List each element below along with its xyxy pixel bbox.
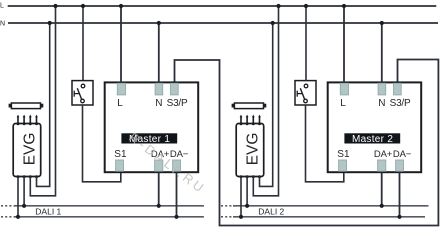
Master 1 terminal pad S1	[116, 160, 124, 171]
wire Master 2 DA- to bus line 2	[399, 172, 401, 217]
Master 1 terminal pad S3/P	[171, 83, 179, 95]
wire switch SW1 to Master 1 S1	[83, 105, 121, 182]
junction dot Master 1 DA- on bus line 2	[174, 215, 178, 219]
wire EVG2 DA terminal 1 to bus line 2	[240, 177, 242, 217]
junction dot EVG1-DA on bus line 1	[22, 204, 26, 208]
Master 2 name banner	[344, 133, 400, 143]
svg-text:L: L	[340, 98, 346, 109]
junction dot EVG2-DA on bus line 2	[239, 215, 243, 219]
svg-text:N: N	[0, 21, 5, 28]
EVG2 lamp terminals (top, with arrows)	[240, 115, 261, 124]
EVG1 lamp terminals (top, with arrows)	[17, 115, 38, 124]
wire EVG2 L terminal to mains L	[253, 6, 278, 196]
junction dot EVG2-N on N line	[271, 21, 275, 25]
wire DALI 2 bus DA line 1 (dotted lead)	[221, 205, 233, 207]
wire L line	[8, 5, 437, 7]
svg-text:DALI 2: DALI 2	[258, 206, 284, 216]
wire DALI 2 bus DA line 2 (dotted lead)	[221, 216, 233, 218]
wire DALI 1 bus DA line 1	[15, 205, 204, 207]
wire L line to switch S1	[82, 6, 84, 81]
junction dot EVG1-N on N line	[48, 21, 52, 25]
wire Master 1 DA+ to bus line 1	[158, 172, 160, 206]
svg-text:N: N	[378, 98, 385, 109]
op Master 2 box	[328, 82, 422, 172]
lamp LA2 (fluorescent tube)	[232, 103, 267, 109]
svg-text:DALI 1: DALI 1	[35, 206, 61, 216]
junction dot Master 1 N on N line	[157, 21, 161, 25]
wire mains N to Master 2 N	[381, 23, 383, 82]
wire EVG1 N terminal to mains N	[37, 23, 50, 186]
wire S3/P sync net (S3/P of Master 1 around to S3/P of Master 2)	[175, 60, 439, 226]
svg-text:L: L	[0, 2, 4, 9]
wire EVG1 L terminal to mains L	[30, 6, 55, 196]
EVG1 top terminal dots	[17, 122, 39, 125]
wire Master 1 DA- to bus line 2	[176, 172, 178, 217]
wire EVG1 DA terminal 2 to bus line 1	[23, 177, 25, 206]
svg-text:S1: S1	[337, 149, 350, 160]
EVG2 top terminal dots	[240, 122, 262, 125]
Master 1 terminal pad L	[117, 83, 125, 95]
wire EVG2 N terminal to mains N	[260, 23, 273, 186]
ballast EVG2 box	[236, 124, 264, 177]
junction dot EVG2-L on L line	[276, 4, 280, 8]
junction dot Master 1 DA+ on bus line 1	[157, 204, 161, 208]
junction dot Master 1 L on L line	[119, 4, 123, 8]
wire DALI 1 bus DA line 2	[15, 216, 204, 218]
Master 2 terminal pad L	[340, 83, 348, 95]
Master 1 terminal pad DA-	[173, 160, 181, 171]
EVG2 bottom terminal dots	[240, 175, 262, 178]
wire mains N to Master 1 N	[158, 23, 160, 82]
Master 2 terminal pad DA+	[378, 160, 386, 171]
Master 2 terminal pad S3/P	[394, 83, 402, 95]
wire N line	[8, 22, 438, 24]
junction dot EVG2-DA on bus line 1	[245, 204, 249, 208]
wire switch SW2 to Master 2 S1	[306, 105, 344, 182]
junction dot EVG1-DA on bus line 2	[16, 215, 20, 219]
svg-text:S3/P: S3/P	[390, 98, 411, 109]
op Master 1 box	[105, 82, 199, 172]
wire EVG2 DA terminal 2 to bus line 1	[246, 177, 248, 206]
Master 2 terminal pad DA-	[396, 160, 404, 171]
wire mains L to Master 2 L	[343, 6, 345, 82]
svg-text:EVG: EVG	[21, 133, 38, 166]
junction dot Master 2 DA- on bus line 2	[397, 215, 401, 219]
wire Master 2 DA+ to bus line 1	[381, 172, 383, 206]
wire EVG1 DA terminal 1 to bus line 2	[17, 177, 19, 217]
lamp LA1 (fluorescent tube)	[9, 103, 44, 109]
junction dot Master 2 L on L line	[342, 4, 346, 8]
svg-text:S3/P: S3/P	[167, 98, 188, 109]
svg-text:EVG: EVG	[244, 133, 261, 166]
switch SW2 (push-button)	[295, 81, 316, 105]
Master 1 name banner	[121, 133, 177, 143]
junction dot switch SW2 feed on L line	[304, 4, 308, 8]
wire L line to switch SW2	[305, 6, 307, 81]
Master 2 terminal pad S1	[339, 160, 347, 171]
svg-text:DA+: DA+	[374, 149, 393, 160]
ballast EVG1 box	[13, 124, 41, 177]
wire DALI 2 bus DA line 2	[233, 216, 425, 218]
wire DALI 1 bus DA line 1 (dotted lead)	[1, 205, 15, 207]
Master 1 terminal pad DA+	[155, 160, 163, 171]
junction dot switch feed on L line	[81, 4, 85, 8]
switch SW1 (push-button)	[72, 81, 93, 105]
svg-text:DA−: DA−	[393, 149, 412, 160]
wire DALI 1 bus DA line 2 (dotted lead)	[1, 216, 15, 218]
svg-text:L: L	[117, 98, 123, 109]
Master 1 terminal pad N	[155, 83, 163, 95]
junction dot Master 2 N on N line	[380, 21, 384, 25]
svg-text:Master 2: Master 2	[352, 134, 393, 145]
junction dot EVG1-L on L line	[53, 4, 57, 8]
junction dot Master 2 DA+ on bus line 1	[380, 204, 384, 208]
svg-text:S1: S1	[114, 149, 127, 160]
Master 2 terminal pad N	[378, 83, 386, 95]
EVG1 bottom terminal dots	[17, 175, 39, 178]
wire DALI 2 bus DA line 1	[233, 205, 429, 207]
svg-text:N: N	[155, 98, 162, 109]
wire mains L to Master 1 L	[120, 6, 122, 82]
